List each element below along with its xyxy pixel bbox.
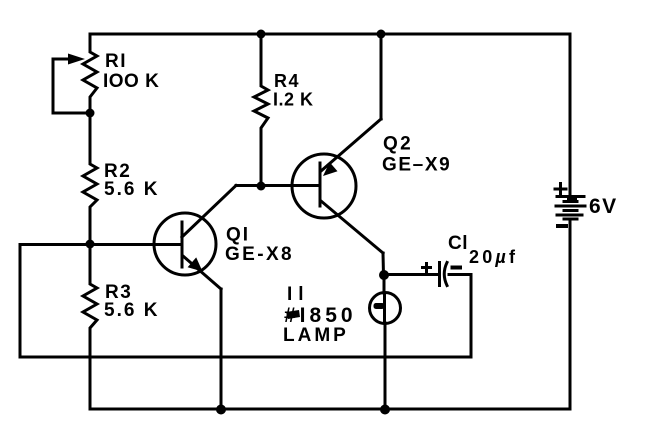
- R1 wiper arm wire: [53, 59, 90, 113]
- resistor R3: [83, 244, 97, 409]
- transistor Q1: [154, 186, 236, 290]
- capacitor C1: [440, 263, 448, 286]
- svg-text:QI: QI: [226, 225, 250, 246]
- potentiometer R1: [83, 34, 97, 113]
- wire Q1 collector to R4 node: [236, 184, 261, 187]
- wire to capacitor: [384, 273, 438, 276]
- svg-text:IOO K: IOO K: [103, 71, 159, 92]
- wire feedback left branch: [20, 245, 471, 358]
- svg-text:Cl: Cl: [448, 233, 468, 254]
- svg-text:6V: 6V: [589, 195, 618, 218]
- node R4 top: [257, 30, 266, 39]
- svg-text:5.6 K: 5.6 K: [104, 300, 159, 321]
- resistor R4: [254, 34, 268, 186]
- C1 plus label: [423, 264, 431, 272]
- node R4 bottom / Q2 base: [257, 182, 266, 191]
- wire right battery branch lower: [569, 219, 572, 409]
- svg-text:I.2 K: I.2 K: [273, 90, 314, 110]
- wire right battery branch upper: [569, 34, 572, 196]
- node Q2 emitter top: [377, 30, 386, 39]
- svg-text:20µf: 20µf: [469, 247, 518, 267]
- svg-text:R4: R4: [274, 71, 300, 91]
- Q2 emitter arrowhead: [323, 162, 338, 176]
- svg-text:GE-X8: GE-X8: [225, 244, 294, 265]
- wire lamp bottom: [384, 323, 387, 409]
- transistor Q2: [292, 119, 383, 253]
- label I1 part 1850: [286, 310, 300, 319]
- wire bottom rail: [90, 408, 570, 411]
- lamp I1: [370, 293, 401, 324]
- battery minus label: [558, 224, 566, 228]
- node Q2 collector junction: [379, 270, 389, 280]
- Q1 emitter arrowhead: [188, 257, 203, 271]
- node lamp ground junction: [380, 405, 390, 415]
- battery B1 6V: [556, 197, 585, 220]
- wire top supply rail: [90, 33, 570, 36]
- wire Q2 emitter to top rail: [380, 34, 383, 119]
- R1 wiper arrowhead: [68, 54, 85, 65]
- node R1 bottom junction: [86, 109, 95, 118]
- battery plus label: [555, 184, 566, 195]
- svg-text:#I850: #I850: [284, 304, 357, 327]
- resistor R2: [83, 113, 97, 244]
- svg-text:Q2: Q2: [383, 134, 413, 155]
- svg-text:LAMP: LAMP: [283, 325, 349, 346]
- svg-text:5.6 K: 5.6 K: [104, 179, 159, 200]
- wire Q2 base: [261, 184, 319, 187]
- svg-text:GE–X9: GE–X9: [382, 155, 451, 176]
- wire Q2 collector down: [382, 253, 386, 275]
- wire Q1 base: [90, 243, 181, 246]
- node base junction A: [86, 240, 95, 249]
- svg-text:RI: RI: [105, 51, 127, 72]
- wire Q1 emitter down: [220, 289, 223, 409]
- node Q1 emitter ground junction: [216, 405, 226, 415]
- svg-text:Il: Il: [287, 284, 310, 305]
- wire lamp top: [383, 275, 386, 293]
- C1 minus label: [453, 266, 461, 270]
